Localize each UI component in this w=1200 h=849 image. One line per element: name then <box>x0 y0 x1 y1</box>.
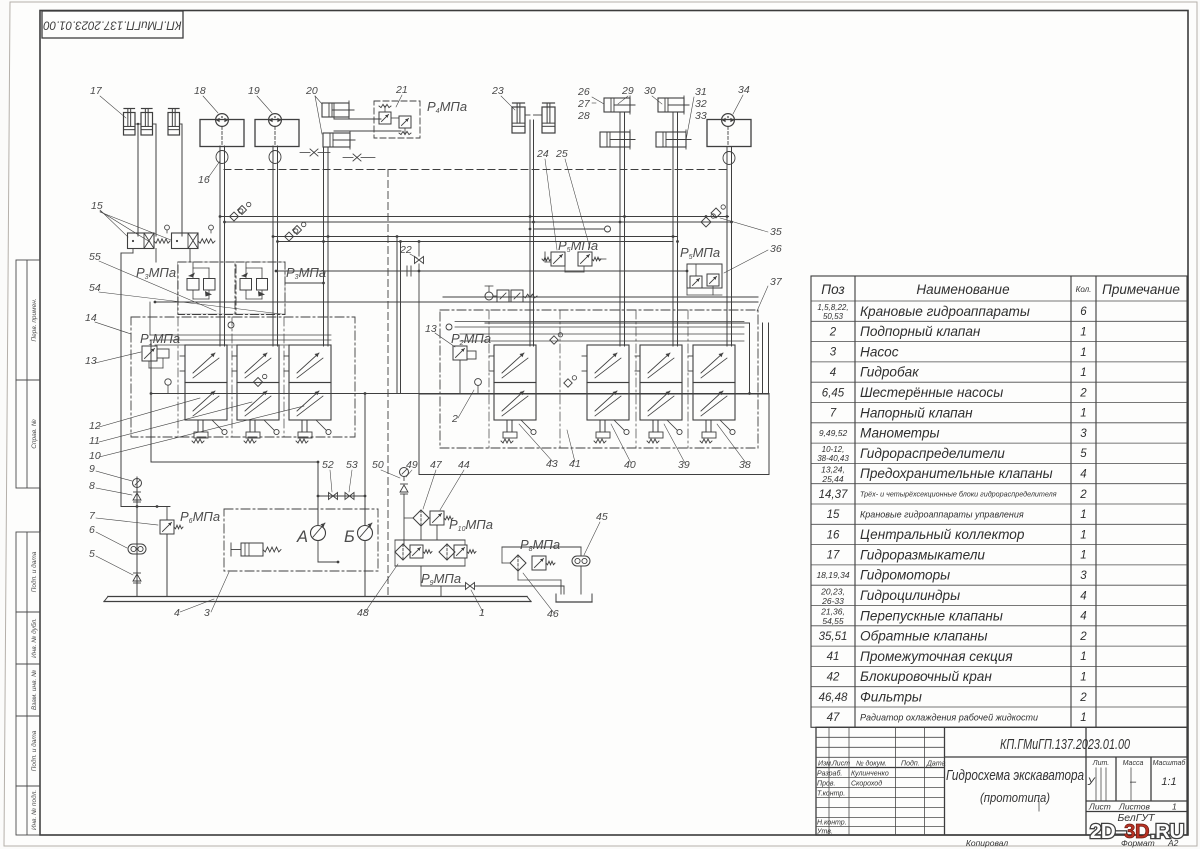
check valve 49a <box>401 483 408 485</box>
wires 29-30 down <box>672 112 674 346</box>
wire y496 <box>318 495 365 497</box>
svg-text:13,24,: 13,24, <box>821 465 845 475</box>
svg-text:1,5,8,22,: 1,5,8,22, <box>817 303 848 312</box>
svg-text:Перв. примен.: Перв. примен. <box>31 298 38 341</box>
svg-text:4: 4 <box>1080 611 1086 623</box>
svg-text:47: 47 <box>430 459 443 471</box>
junction dots bottom <box>317 495 320 498</box>
svg-text:46,48: 46,48 <box>819 692 848 704</box>
parts table <box>811 276 1187 727</box>
svg-text:25,44: 25,44 <box>821 474 844 484</box>
svg-text:8: 8 <box>89 480 95 492</box>
svg-text:11: 11 <box>89 435 100 447</box>
svg-text:Гидробак: Гидробак <box>860 365 919 380</box>
pressure gauge B <box>358 526 373 541</box>
svg-text:КП.ГМиГП.137.2023.01.00: КП.ГМиГП.137.2023.01.00 <box>43 18 182 30</box>
wire main bus y222 <box>225 221 732 223</box>
svg-text:Центральный коллектор: Центральный коллектор <box>860 527 1025 542</box>
pump unit box 3 (dash-dot) <box>224 509 378 571</box>
svg-text:18: 18 <box>194 85 206 97</box>
svg-text:Насос: Насос <box>860 344 899 359</box>
svg-text:Кол.: Кол. <box>1076 285 1092 294</box>
relief valve 13 left <box>142 346 157 361</box>
svg-text:47: 47 <box>827 712 840 724</box>
wire riser x749 <box>749 323 751 394</box>
pressure valve 7 <box>166 507 168 521</box>
junction dots <box>219 215 222 218</box>
valve 52 <box>329 493 338 500</box>
svg-text:Р3МПа: Р3МПа <box>136 265 176 281</box>
svg-text:Крановые гидроаппараты: Крановые гидроаппараты <box>860 304 1030 319</box>
hydraulic release cylinders 17 <box>124 113 136 136</box>
hydrocylinder 26-28 upper <box>604 98 630 112</box>
svg-text:37: 37 <box>770 276 783 288</box>
svg-text:2D–: 2D– <box>1090 820 1126 843</box>
svg-text:1: 1 <box>479 607 485 619</box>
svg-text:Подп.: Подп. <box>901 759 920 767</box>
bank2 internal dividers <box>488 310 490 448</box>
svg-text:Трёх- и четырёхсекционные блок: Трёх- и четырёхсекционные блоки гидрорас… <box>860 489 1057 498</box>
svg-text:3D: 3D <box>1124 820 1149 843</box>
wire left column x137 <box>136 477 138 597</box>
svg-text:Инв. № дубл.: Инв. № дубл. <box>30 618 38 658</box>
svg-text:43: 43 <box>546 458 558 470</box>
svg-text:28: 28 <box>577 110 590 122</box>
svg-text:Гидросхема экскаватора: Гидросхема экскаватора <box>946 768 1084 784</box>
pilot dashed vertical x388 <box>387 170 389 599</box>
bypass valve 48b <box>410 545 423 558</box>
svg-text:1: 1 <box>1080 367 1086 379</box>
wire y506 <box>121 506 170 508</box>
pilot dashed line y169 <box>224 169 729 171</box>
hydrocylinder 26-28 lower <box>600 132 630 147</box>
svg-text:16: 16 <box>827 529 840 541</box>
svg-text:Предохранительные клапаны: Предохранительные клапаны <box>860 466 1053 481</box>
port diamond bank2 top <box>550 336 558 344</box>
drain valve 1 <box>466 583 475 590</box>
filter 48c <box>439 544 455 560</box>
svg-text:2: 2 <box>1079 692 1087 704</box>
pump piston symbol <box>241 543 263 556</box>
svg-text:Утв.: Утв. <box>816 829 833 836</box>
svg-text:38-40,43: 38-40,43 <box>817 454 849 463</box>
distributor section 39 <box>640 345 682 383</box>
svg-text:4: 4 <box>1080 590 1086 602</box>
svg-text:Подпорный клапан: Подпорный клапан <box>860 324 981 339</box>
top-left rotated doc number box <box>42 11 183 38</box>
svg-text:1: 1 <box>1080 509 1086 521</box>
gear pump 45 <box>572 556 590 566</box>
left stamp column: Подп. и дата (upper) <box>16 532 40 612</box>
svg-text:Н.контр.: Н.контр. <box>817 820 847 827</box>
pilot control valve 15 section A <box>128 233 155 249</box>
svg-text:У: У <box>1086 776 1095 788</box>
svg-text:20,23,: 20,23, <box>820 586 845 596</box>
svg-text:36: 36 <box>770 243 782 255</box>
distributor section 11 <box>237 345 279 383</box>
svg-text:1: 1 <box>1080 550 1086 562</box>
left stamp column: Инв. № дубл. <box>16 612 40 664</box>
svg-text:26: 26 <box>577 86 590 98</box>
wire bus y297 <box>443 296 758 298</box>
central collector ring 16 on line 19 <box>269 151 281 164</box>
svg-text:35: 35 <box>770 226 782 238</box>
check valve 8 <box>134 491 141 493</box>
svg-text:Лист: Лист <box>1088 802 1111 812</box>
wire pair x397 <box>396 237 398 394</box>
svg-text:32: 32 <box>695 98 707 110</box>
hydrocylinder 29-30 lower <box>656 132 686 147</box>
wire bus y323 <box>485 322 750 324</box>
filter 47 <box>413 510 429 526</box>
svg-text:1: 1 <box>1080 529 1086 541</box>
svg-text:6: 6 <box>1080 306 1087 318</box>
svg-text:Подп. и дата: Подп. и дата <box>30 730 38 771</box>
svg-text:Гидрораспределители: Гидрораспределители <box>860 446 1005 461</box>
port circle on return bus <box>165 379 171 385</box>
wire riser to gauge A <box>317 462 319 526</box>
svg-text:23: 23 <box>491 85 504 97</box>
svg-text:50: 50 <box>372 459 384 471</box>
svg-text:35,51: 35,51 <box>819 631 848 643</box>
svg-text:Шестерённые насосы: Шестерённые насосы <box>860 385 1003 400</box>
svg-text:(прототипа): (прототипа) <box>980 790 1050 805</box>
wires 46 <box>502 562 510 564</box>
svg-text:1:1: 1:1 <box>1161 776 1176 788</box>
svg-text:Гидроцилиндры: Гидроцилиндры <box>860 588 960 603</box>
svg-text:Р3МПа: Р3МПа <box>286 265 326 281</box>
svg-text:44: 44 <box>458 459 470 471</box>
wire 20 to block 21 <box>334 118 381 120</box>
manifold lines bank1 <box>150 334 331 336</box>
distributor section 43 <box>494 345 536 383</box>
svg-text:Справ. №: Справ. № <box>31 419 38 449</box>
svg-text:16: 16 <box>198 174 210 186</box>
outer frame of 54/55 <box>178 262 286 314</box>
svg-text:3: 3 <box>1080 570 1087 582</box>
valve 53 <box>345 493 354 500</box>
svg-text:2: 2 <box>1079 631 1087 643</box>
svg-text:26-33: 26-33 <box>821 596 844 606</box>
svg-text:45: 45 <box>596 511 608 523</box>
svg-text:21,36,: 21,36, <box>820 607 845 617</box>
svg-text:38: 38 <box>739 459 751 471</box>
wires 26-28 down <box>619 112 621 346</box>
wire bus y302 <box>155 301 758 303</box>
wire y283 linking 54/55 to riser <box>285 282 324 284</box>
svg-text:Гидроразмыкатели: Гидроразмыкатели <box>860 547 985 562</box>
svg-text:25: 25 <box>555 148 568 160</box>
svg-text:Разраб.: Разраб. <box>817 770 842 778</box>
left stamp column: Инв. № подл. <box>16 786 40 835</box>
hydrocylinder 23 left <box>512 107 525 133</box>
check valve 5 <box>134 572 141 574</box>
svg-text:Поз: Поз <box>821 282 844 297</box>
drain cross near 21 <box>353 154 361 161</box>
wire x404 down <box>403 494 405 545</box>
svg-text:10: 10 <box>89 450 101 462</box>
svg-text:Промежуточная секция: Промежуточная секция <box>860 649 1013 664</box>
svg-text:19: 19 <box>248 85 260 97</box>
wires 47/44 <box>404 517 413 519</box>
svg-text:4: 4 <box>174 607 180 619</box>
svg-text:2: 2 <box>451 413 458 425</box>
svg-text:29: 29 <box>621 85 634 97</box>
pressure gauge A <box>311 526 326 541</box>
svg-text:24: 24 <box>536 148 549 160</box>
svg-text:Взам. инв. №: Взам. инв. № <box>31 670 38 710</box>
svg-text:14,37: 14,37 <box>819 489 848 501</box>
svg-text:2: 2 <box>1079 387 1087 399</box>
svg-text:20: 20 <box>305 85 318 97</box>
gear pump 6 <box>128 544 146 554</box>
filter 48a <box>395 544 411 560</box>
svg-text:4: 4 <box>830 367 836 379</box>
svg-text:Гидромоторы: Гидромоторы <box>860 568 950 583</box>
distributor block 14 (dash-dot box) <box>131 317 355 437</box>
hydromotor 19 <box>255 120 299 147</box>
port diamonds on bus near 18 <box>230 212 239 221</box>
svg-text:27: 27 <box>577 98 591 110</box>
svg-text:Листов: Листов <box>1118 802 1151 812</box>
filter 46 <box>510 555 526 571</box>
hydrocylinder 23 right <box>542 107 555 133</box>
tank under 45/46 <box>555 594 557 602</box>
svg-text:50,53: 50,53 <box>823 312 844 321</box>
collector ring on line 34 <box>723 152 735 165</box>
hydrocylinder 29-30 upper <box>658 98 684 112</box>
wire bus y271 <box>276 270 687 272</box>
wire stub y229 with port <box>534 228 605 230</box>
valve 46b <box>532 556 546 570</box>
svg-text:Изм.: Изм. <box>818 760 833 767</box>
hydrocylinder 20 upper <box>322 103 349 117</box>
bypass valve block 54 <box>236 262 285 315</box>
distributor section 40 <box>587 345 629 383</box>
wires below valve 15 <box>132 249 134 254</box>
svg-text:41: 41 <box>827 651 840 663</box>
svg-text:42: 42 <box>827 672 840 684</box>
wires 23 down <box>529 120 531 346</box>
svg-text:46: 46 <box>547 608 559 620</box>
svg-text:1: 1 <box>1080 347 1086 359</box>
wire riser to gauge B x365 <box>364 394 366 526</box>
svg-text:31: 31 <box>695 86 707 98</box>
svg-text:Р5МПа: Р5МПа <box>680 245 720 261</box>
svg-text:1: 1 <box>1080 651 1086 663</box>
svg-text:6,45: 6,45 <box>822 387 845 399</box>
wire main return bus y393 <box>151 393 769 395</box>
distributor section 10 <box>185 345 227 383</box>
2D-3D.RU watermark <box>1090 820 1184 843</box>
svg-text:49: 49 <box>406 459 418 471</box>
left stamp column: Подп. и дата (lower) <box>16 716 40 786</box>
svg-text:Р4МПа: Р4МПа <box>427 99 467 115</box>
svg-text:30: 30 <box>644 85 656 97</box>
svg-text:17: 17 <box>827 550 840 562</box>
blocking valve 42 <box>485 292 493 300</box>
svg-text:Обратные клапаны: Обратные клапаны <box>860 629 988 644</box>
wire x419 down to block <box>418 271 420 394</box>
svg-text:2: 2 <box>1079 489 1087 501</box>
pressure gauge 9 <box>133 479 142 488</box>
intermediate block outline 41 <box>419 394 769 475</box>
svg-text:3: 3 <box>204 607 210 619</box>
svg-text:1: 1 <box>1080 408 1086 420</box>
svg-text:Скороход: Скороход <box>851 780 882 788</box>
svg-text:15: 15 <box>827 509 840 521</box>
svg-text:Р9МПа: Р9МПа <box>421 571 461 587</box>
svg-text:54,55: 54,55 <box>822 616 844 626</box>
port circle on bank2 drain <box>475 379 482 386</box>
svg-text:Лит.: Лит. <box>1092 760 1109 767</box>
svg-text:А: А <box>296 528 308 546</box>
wires from 17 down to valve 15 <box>135 123 141 125</box>
wires 20 down <box>323 147 325 346</box>
title block (осн. надпись) <box>816 727 1187 835</box>
wire main bus y216 <box>220 216 729 218</box>
wire bus y462 <box>151 461 318 463</box>
hydrocylinder 20 lower <box>323 133 350 147</box>
tank 4 main line <box>108 596 527 598</box>
svg-text:1: 1 <box>1080 326 1086 338</box>
svg-text:Напорный клапан: Напорный клапан <box>860 405 973 420</box>
svg-text:Р2МПа: Р2МПа <box>451 331 491 347</box>
svg-text:Р6МПа: Р6МПа <box>180 509 220 525</box>
svg-text:34: 34 <box>738 84 750 96</box>
svg-text:52: 52 <box>322 459 334 471</box>
svg-text:Фильтры: Фильтры <box>860 690 922 705</box>
wires 19 down <box>272 146 274 346</box>
drain cross near 20 <box>310 149 318 156</box>
svg-text:Масштаб: Масштаб <box>1153 759 1187 767</box>
svg-text:Наименование: Наименование <box>916 282 1009 297</box>
svg-text:КП.ГМиГП.137.2023.01.00: КП.ГМиГП.137.2023.01.00 <box>1000 736 1130 753</box>
svg-text:Радиатор охлаждения рабочей жи: Радиатор охлаждения рабочей жидкости <box>860 712 1038 722</box>
svg-text:Крановые гидроаппараты управле: Крановые гидроаппараты управления <box>860 509 1024 519</box>
bypass valve block 55 <box>178 262 235 315</box>
pressure gauge 50/49 <box>400 468 409 477</box>
hydromotor 34 <box>707 120 751 147</box>
svg-text:10-12,: 10-12, <box>822 445 845 454</box>
svg-text:№ докум.: № докум. <box>856 759 887 767</box>
svg-text:–: – <box>1129 776 1137 788</box>
relief valve 13 right <box>453 346 467 360</box>
drain wires from block right <box>762 323 764 394</box>
manifold lines bank2 <box>455 321 744 323</box>
svg-text:17: 17 <box>90 85 103 97</box>
svg-text:2: 2 <box>829 326 837 338</box>
left stamp column: Перв. примен. <box>16 260 40 835</box>
svg-text:Копировал: Копировал <box>966 838 1008 848</box>
svg-text:6: 6 <box>89 524 95 536</box>
distributor section 38 <box>693 345 735 383</box>
svg-text:Дата: Дата <box>926 760 946 767</box>
wire bus y236 <box>273 236 678 238</box>
svg-text:53: 53 <box>346 459 358 471</box>
bypass valve 48d <box>454 545 467 558</box>
svg-text:13: 13 <box>85 355 97 367</box>
pilot control valve 15 section B <box>172 233 199 249</box>
svg-text:33: 33 <box>695 110 707 122</box>
wire y586 <box>421 585 465 587</box>
svg-text:4: 4 <box>1080 469 1086 481</box>
svg-text:1: 1 <box>1080 672 1086 684</box>
left stamp column: Справ. № <box>16 380 40 488</box>
wire bus y241 <box>278 241 674 243</box>
bank1 internal dividers <box>177 317 179 437</box>
central collector ring 16 on line 18 <box>216 151 228 164</box>
safety valve 44 <box>430 511 444 525</box>
svg-text:1: 1 <box>1172 802 1177 812</box>
svg-text:21: 21 <box>395 84 408 96</box>
svg-text:3: 3 <box>830 347 837 359</box>
svg-text:Инв. № подл.: Инв. № подл. <box>30 790 38 831</box>
svg-text:18,19,34: 18,19,34 <box>816 570 849 580</box>
svg-text:9,49,52: 9,49,52 <box>819 428 848 438</box>
wires 48 cluster <box>395 539 465 541</box>
svg-text:15: 15 <box>91 200 103 212</box>
svg-text:Пров.: Пров. <box>817 781 836 788</box>
svg-text:Манометры: Манометры <box>860 426 940 441</box>
wires 45 <box>580 547 582 556</box>
hydromotor 18 <box>200 120 244 147</box>
svg-text:.RU: .RU <box>1150 820 1184 843</box>
wires 34 down <box>726 147 728 346</box>
svg-text:41: 41 <box>569 458 581 470</box>
distributor section 12 <box>289 345 331 383</box>
svg-text:5: 5 <box>89 548 95 560</box>
svg-text:3: 3 <box>1080 428 1087 440</box>
svg-text:Примечание: Примечание <box>1102 282 1180 297</box>
distributor block 37 (dash-dot box) <box>440 310 758 448</box>
svg-text:Блокировочный кран: Блокировочный кран <box>860 669 992 684</box>
wires 18 down <box>219 146 221 346</box>
port diamonds on bus near 19 <box>285 232 294 241</box>
check valves 35 <box>701 217 711 227</box>
svg-text:Р10МПа: Р10МПа <box>449 517 493 533</box>
svg-text:Перепускные клапаны: Перепускные клапаны <box>860 608 1003 623</box>
svg-text:1: 1 <box>1080 712 1086 724</box>
svg-text:9: 9 <box>89 463 95 475</box>
svg-text:Масса: Масса <box>1123 760 1144 767</box>
svg-text:Подп. и дата: Подп. и дата <box>30 551 38 592</box>
svg-text:12: 12 <box>89 420 101 432</box>
svg-text:Р8МПа: Р8МПа <box>520 537 560 553</box>
left stamp column: Взам. инв. № <box>16 664 40 716</box>
svg-text:Б: Б <box>344 528 355 546</box>
port diamond on bank1 drain <box>254 378 263 387</box>
port diamond bank2 mid <box>564 379 572 387</box>
wire x151 bank1 drain <box>150 340 152 462</box>
svg-text:Т.контр.: Т.контр. <box>817 791 845 798</box>
svg-text:7: 7 <box>830 408 837 420</box>
svg-text:Лист: Лист <box>831 760 850 767</box>
bypass valve block 21 (dashed) <box>374 101 420 138</box>
svg-text:5: 5 <box>1080 448 1087 460</box>
svg-text:Кулинченко: Кулинченко <box>851 771 889 778</box>
